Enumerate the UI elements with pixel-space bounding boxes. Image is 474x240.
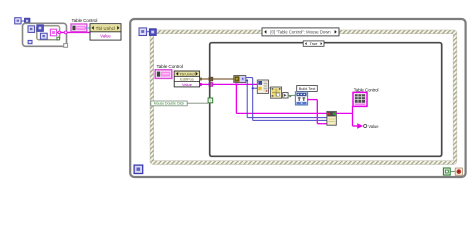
svg-text:EditPos: EditPos (180, 76, 194, 81)
wire magenta from pink node to property node (57, 31, 94, 34)
case selector ? terminal (208, 98, 213, 103)
Build Text express icon (295, 92, 307, 105)
node D (set cell value) (327, 111, 336, 125)
inner frame (37, 26, 60, 40)
node D output wire to table terminal and Value (336, 106, 367, 129)
icon S5 inside inner frame (40, 33, 47, 39)
case structure border (210, 43, 442, 157)
svg-text:?: ? (209, 99, 211, 103)
svg-text:Table Control: Table Control (157, 64, 183, 69)
Build Text label (297, 86, 318, 92)
event case selector label (262, 28, 339, 36)
node C (to string) (283, 93, 288, 98)
svg-text:Table Control: Table Control (72, 18, 98, 23)
svg-text:Value: Value (368, 124, 379, 129)
wire blue column (246, 79, 327, 117)
green continue box (443, 168, 450, 175)
icon E2 (solid blue node on event corner) (147, 29, 157, 36)
table control terminal (353, 92, 367, 106)
boolean wire to case selector terminal (187, 102, 208, 104)
control reference constant (inside event) (155, 70, 172, 79)
outer loop frame (small) (23, 23, 67, 46)
icon S2 (small solid blue node) (21, 18, 30, 23)
property node P1 (Value) (90, 24, 121, 40)
event structure hatched border (152, 32, 455, 163)
wire cluster brown (EditPos) (200, 77, 234, 81)
svg-text:[0] "Table Control": Mouse Dow: [0] "Table Control": Mouse Down (270, 30, 331, 35)
icon S4 on inner frame corner (37, 25, 44, 32)
svg-text:Mouse Double Click: Mouse Double Click (154, 102, 184, 106)
node B (get cell) (271, 87, 282, 98)
while loop border (130, 19, 465, 177)
iteration icon bottom-left of outer frame (28, 40, 32, 43)
express output wire (307, 100, 327, 124)
icon S3 inside outer frame (28, 26, 35, 33)
wire A to B (269, 87, 271, 89)
svg-text:Value: Value (182, 82, 193, 87)
icon S1 (small VI icon) (15, 18, 21, 24)
wire magenta (Value out) (200, 83, 327, 114)
wire blue row (246, 78, 327, 121)
svg-text:Build Text: Build Text (299, 86, 317, 91)
icon E1 (event reg icon) (139, 28, 147, 36)
wire C to express (288, 95, 296, 97)
pink node S6 (reference source) (50, 29, 56, 36)
svg-text:Tbl Unhcl: Tbl Unhcl (96, 26, 116, 31)
refnum dashed wire (85, 27, 90, 29)
control reference constant (top) (71, 24, 87, 32)
conditional terminal (stop) (455, 168, 462, 175)
green wire (450, 171, 455, 173)
node A (point to row column) (257, 80, 268, 93)
property node P2 (EditPos / Value) (174, 71, 199, 87)
while loop iteration terminal (134, 165, 143, 173)
case selector (True) (303, 41, 324, 46)
svg-text:Value: Value (100, 34, 111, 39)
unbundle node (234, 76, 246, 83)
green conditional square (inner frame corner) (57, 37, 60, 40)
white tunnel at outer frame corner (64, 44, 68, 48)
svg-text:True: True (310, 42, 318, 46)
event data node (double click) (151, 101, 187, 106)
